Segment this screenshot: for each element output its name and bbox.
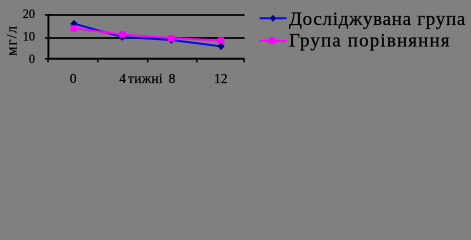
x-axis tick at left end: [47, 59, 49, 63]
series 2 line (Група порівняння, magenta): [74, 28, 222, 40]
svg-text:4: 4: [119, 71, 126, 86]
x-axis tick 3: [147, 59, 149, 63]
series 1 marker point 1 (diamond): [70, 20, 77, 27]
y-axis: [47, 14, 49, 60]
svg-text:20: 20: [23, 7, 35, 21]
svg-text:0: 0: [70, 71, 77, 86]
legend entry 1 diamond marker: [270, 15, 277, 22]
svg-text:Досліджувана група: Досліджувана група: [289, 9, 466, 30]
svg-text:10: 10: [23, 30, 35, 44]
y-axis tick 20: [45, 14, 49, 16]
series 2 marker point 3 (square): [168, 35, 174, 41]
series 1 marker point 3 (diamond): [168, 36, 175, 43]
legend entry 2 line: [259, 40, 287, 42]
y-axis tick 10: [45, 37, 49, 39]
legend entry 1 line: [260, 17, 287, 19]
series 1 marker point 2 (diamond): [119, 33, 126, 40]
svg-text:тижні: тижні: [128, 71, 163, 86]
series 1 marker point 4 (diamond): [217, 43, 224, 50]
svg-text:8: 8: [169, 71, 176, 86]
legend entry 2 square marker: [269, 37, 275, 43]
svg-text:0: 0: [29, 52, 35, 66]
x-axis tick 4: [196, 59, 198, 63]
gridline 20: [48, 14, 245, 16]
gridline 10: [48, 37, 245, 39]
svg-text:Група порівняння: Група порівняння: [289, 30, 451, 51]
svg-text:мг/л: мг/л: [5, 25, 21, 56]
y-axis tick 0: [45, 58, 49, 60]
x-axis: [47, 58, 244, 60]
series 2 marker point 2 (square): [119, 31, 125, 37]
svg-text:12: 12: [214, 71, 228, 86]
x-axis tick at right end: [243, 59, 245, 63]
series 2 marker point 4 (square): [218, 37, 224, 43]
series 1 line (Досліджувана група, blue): [74, 24, 221, 47]
series 2 marker point 1 (square): [70, 25, 76, 31]
x-axis tick 2: [97, 59, 99, 63]
